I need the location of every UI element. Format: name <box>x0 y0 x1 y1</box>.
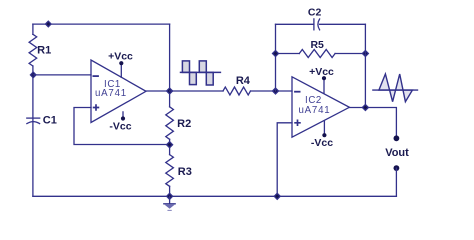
svg-text:Vout: Vout <box>385 147 409 159</box>
node D: R2/R3 junction <box>167 142 173 148</box>
node L: Vout lower terminal <box>394 165 400 171</box>
svg-text:R3: R3 <box>178 166 192 178</box>
node C: IC1 output junction <box>167 88 173 94</box>
wire R5 branch left <box>276 53 300 55</box>
wire IC2 output to Vout corner <box>349 108 396 139</box>
square wave symbol at IC1 output <box>181 61 221 85</box>
svg-text:-Vcc: -Vcc <box>109 121 131 133</box>
wire R5 branch right <box>335 53 365 55</box>
wire top rail from left rail to mid rail <box>33 23 170 25</box>
triangle wave symbol at IC2 output <box>373 74 418 102</box>
wire IC2 non-inverting input jog to ground rail <box>277 123 292 197</box>
svg-text:R1: R1 <box>37 44 51 56</box>
wire left rail vertical (top stub above R1) <box>32 24 34 34</box>
ground <box>164 196 175 210</box>
node G: R5 left junction <box>273 51 279 57</box>
svg-text:uA741: uA741 <box>95 88 127 99</box>
wire feedback left vertical <box>275 24 277 91</box>
capacitor C1 <box>27 117 40 119</box>
resistor R4 <box>223 87 251 95</box>
node E: ground junction <box>167 193 173 199</box>
wire between R2 and R3 <box>169 139 171 154</box>
node K: Vout upper terminal <box>394 135 400 141</box>
wire feedback right vertical <box>364 24 366 107</box>
wire C2 branch left <box>276 23 314 25</box>
svg-text:R4: R4 <box>236 75 251 87</box>
node I: IC2 + input ground junction <box>274 193 280 199</box>
resistor R2 <box>166 107 174 140</box>
svg-text:uA741: uA741 <box>298 105 330 116</box>
wire mid rail vertical top segment <box>169 24 171 107</box>
wire IC1 output to mid rail <box>146 90 170 92</box>
svg-text:+Vcc: +Vcc <box>309 66 334 78</box>
node F: IC2 inverting input junction <box>273 88 279 94</box>
wire IC1 inverting input <box>33 74 91 76</box>
node J: IC2 output junction <box>362 105 368 111</box>
op-amp U2 IC2 uA741 <box>292 66 349 149</box>
wire R4 line from IC1 output junction <box>170 90 223 92</box>
node B: R1/C1/inverting-input junction <box>30 72 36 78</box>
wire left rail below R1 through C1 to bottom rail <box>32 66 34 196</box>
wire IC1 non-inverting input jog to R2/R3 node <box>74 108 170 145</box>
resistor R1 <box>29 34 37 66</box>
svg-text:-Vcc: -Vcc <box>311 137 333 149</box>
capacitor C2 <box>313 19 315 30</box>
wire Vout to bottom rail <box>395 168 397 196</box>
node A: junction dot on top rail <box>46 21 52 27</box>
svg-text:+Vcc: +Vcc <box>108 50 133 62</box>
wire C2 branch right <box>320 23 366 25</box>
svg-text:R2: R2 <box>177 118 191 130</box>
svg-text:C2: C2 <box>308 6 322 18</box>
svg-text:R5: R5 <box>310 39 324 51</box>
wire R4 to IC2 inverting input <box>251 90 293 92</box>
op-amp U1 IC1 uA741 <box>91 50 146 132</box>
wire R3 to ground node <box>169 186 171 196</box>
resistor R5 <box>299 50 335 58</box>
wire bottom rail <box>33 195 397 197</box>
svg-text:C1: C1 <box>43 115 57 127</box>
node H: R5 right junction <box>362 51 368 57</box>
resistor R3 <box>166 155 174 187</box>
